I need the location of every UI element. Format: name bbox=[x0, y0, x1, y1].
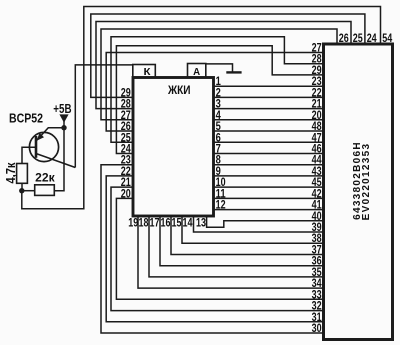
wire LCD backlight pin K to transistor collector bbox=[75, 65, 133, 168]
wire LCD pin 1 to U1 pin 23 bbox=[214, 85, 324, 87]
junction +5V/emitter bbox=[61, 125, 66, 130]
svg-text:15: 15 bbox=[172, 215, 182, 229]
wire +5V to emitter junction bbox=[63, 121, 65, 128]
wire LCD pin 8 to U1 pin 44 bbox=[214, 164, 324, 166]
junction base node bbox=[19, 188, 24, 193]
wire emitter to +5V node bbox=[36, 128, 64, 141]
wire LCD pin 7 to U1 pin 46 bbox=[214, 153, 324, 155]
wire LCD pin 13 to U1 pin 40 bbox=[207, 216, 324, 227]
wire LCD pin 5 to U1 pin 48 bbox=[214, 130, 324, 132]
wire LCD pin 29 to U1 pin 24 (top) bbox=[91, 14, 365, 97]
wire net base-node to U1 pin 54 (top) bbox=[22, 7, 381, 209]
wire LCD pin 26 to U1 pin 27 bbox=[106, 53, 323, 132]
wire LCD pin 27 to U1 pin 26 (top) bbox=[101, 29, 337, 120]
wire LCD pin 6 to U1 pin 47 bbox=[214, 141, 324, 143]
wire LCD pin 12 to U1 pin 41 bbox=[214, 209, 324, 211]
IC U1 body bbox=[324, 44, 393, 340]
svg-text:20: 20 bbox=[121, 186, 131, 200]
transistor Q1 emitter arrow (PNP) bbox=[37, 133, 44, 141]
LCD pin A box bbox=[188, 64, 206, 78]
wire collector bbox=[36, 154, 75, 168]
svg-text:22к: 22к bbox=[35, 171, 55, 185]
LCD pin K box bbox=[133, 65, 156, 78]
power +5V symbol bbox=[59, 114, 68, 122]
transistor Q1 base bar bbox=[35, 136, 38, 158]
svg-text:+5В: +5В bbox=[53, 102, 71, 116]
wire LCD pin 20 to U1 pin 33 bbox=[116, 198, 323, 299]
svg-text:54: 54 bbox=[382, 31, 392, 45]
wire node to R2 left bbox=[22, 190, 35, 192]
svg-text:19: 19 bbox=[128, 215, 138, 229]
svg-text:17: 17 bbox=[150, 215, 160, 229]
svg-text:BCP52: BCP52 bbox=[9, 111, 43, 125]
LCD module body bbox=[133, 78, 214, 217]
wire LCD pin 19 to U1 pin 34 bbox=[138, 216, 324, 288]
wire LCD pin 15 to U1 pin 38 bbox=[182, 216, 324, 243]
svg-text:А: А bbox=[193, 66, 200, 78]
svg-text:К: К bbox=[144, 66, 152, 78]
svg-text:25: 25 bbox=[353, 31, 363, 45]
wire LCD pin 2 to U1 pin 22 bbox=[214, 96, 324, 98]
wire LCD pin 24 to U1 pin 29 bbox=[116, 46, 323, 154]
wire LCD pin 9 to U1 pin 43 bbox=[214, 175, 324, 177]
wire base to resistor R1 bbox=[22, 147, 36, 163]
resistor R1 4.7k body bbox=[17, 164, 28, 184]
wire LCD pin 18 to U1 pin 35 bbox=[149, 216, 324, 277]
svg-text:14: 14 bbox=[183, 215, 193, 229]
svg-text:ЖКИ: ЖКИ bbox=[167, 83, 190, 97]
svg-text:30: 30 bbox=[312, 321, 322, 335]
wire LCD pin 11 to U1 pin 42 bbox=[214, 197, 324, 199]
wire LCD pin 21 to U1 pin 32 bbox=[111, 187, 324, 311]
svg-text:EV022012353: EV022012353 bbox=[361, 143, 372, 221]
svg-text:16: 16 bbox=[161, 215, 171, 229]
wire +5V rail to R2 right bbox=[54, 128, 64, 191]
svg-text:13: 13 bbox=[196, 215, 206, 229]
ground bbox=[226, 71, 241, 73]
wire LCD pin 4 to U1 pin 20 bbox=[214, 119, 324, 121]
wire LCD pin 28 to U1 pin 25 (top) bbox=[96, 22, 351, 109]
svg-text:26: 26 bbox=[339, 31, 349, 45]
wire LCD pin 10 to U1 pin 45 bbox=[214, 186, 324, 188]
svg-text:12: 12 bbox=[216, 198, 226, 212]
wire LCD pin 17 to U1 pin 36 bbox=[160, 216, 324, 266]
wire R1 bottom to node bbox=[21, 183, 23, 192]
transistor Q1 BCP52 body bbox=[29, 132, 58, 161]
svg-text:18: 18 bbox=[139, 215, 149, 229]
wire LCD pin 23 to U1 pin 30 bbox=[101, 165, 324, 333]
svg-text:24: 24 bbox=[367, 31, 377, 45]
resistor R2 22k body bbox=[35, 185, 55, 196]
wire LCD backlight pin A to ground bbox=[205, 64, 233, 72]
wire LCD pin 16 to U1 pin 37 bbox=[171, 216, 324, 255]
wire LCD pin 25 to U1 pin 28 bbox=[111, 37, 324, 143]
wire LCD pin 3 to U1 pin 21 bbox=[214, 108, 324, 110]
wire LCD pin 14 to U1 pin 39 bbox=[194, 216, 324, 232]
svg-text:4,7к: 4,7к bbox=[4, 162, 18, 184]
wire LCD pin 22 to U1 pin 31 bbox=[106, 176, 323, 322]
